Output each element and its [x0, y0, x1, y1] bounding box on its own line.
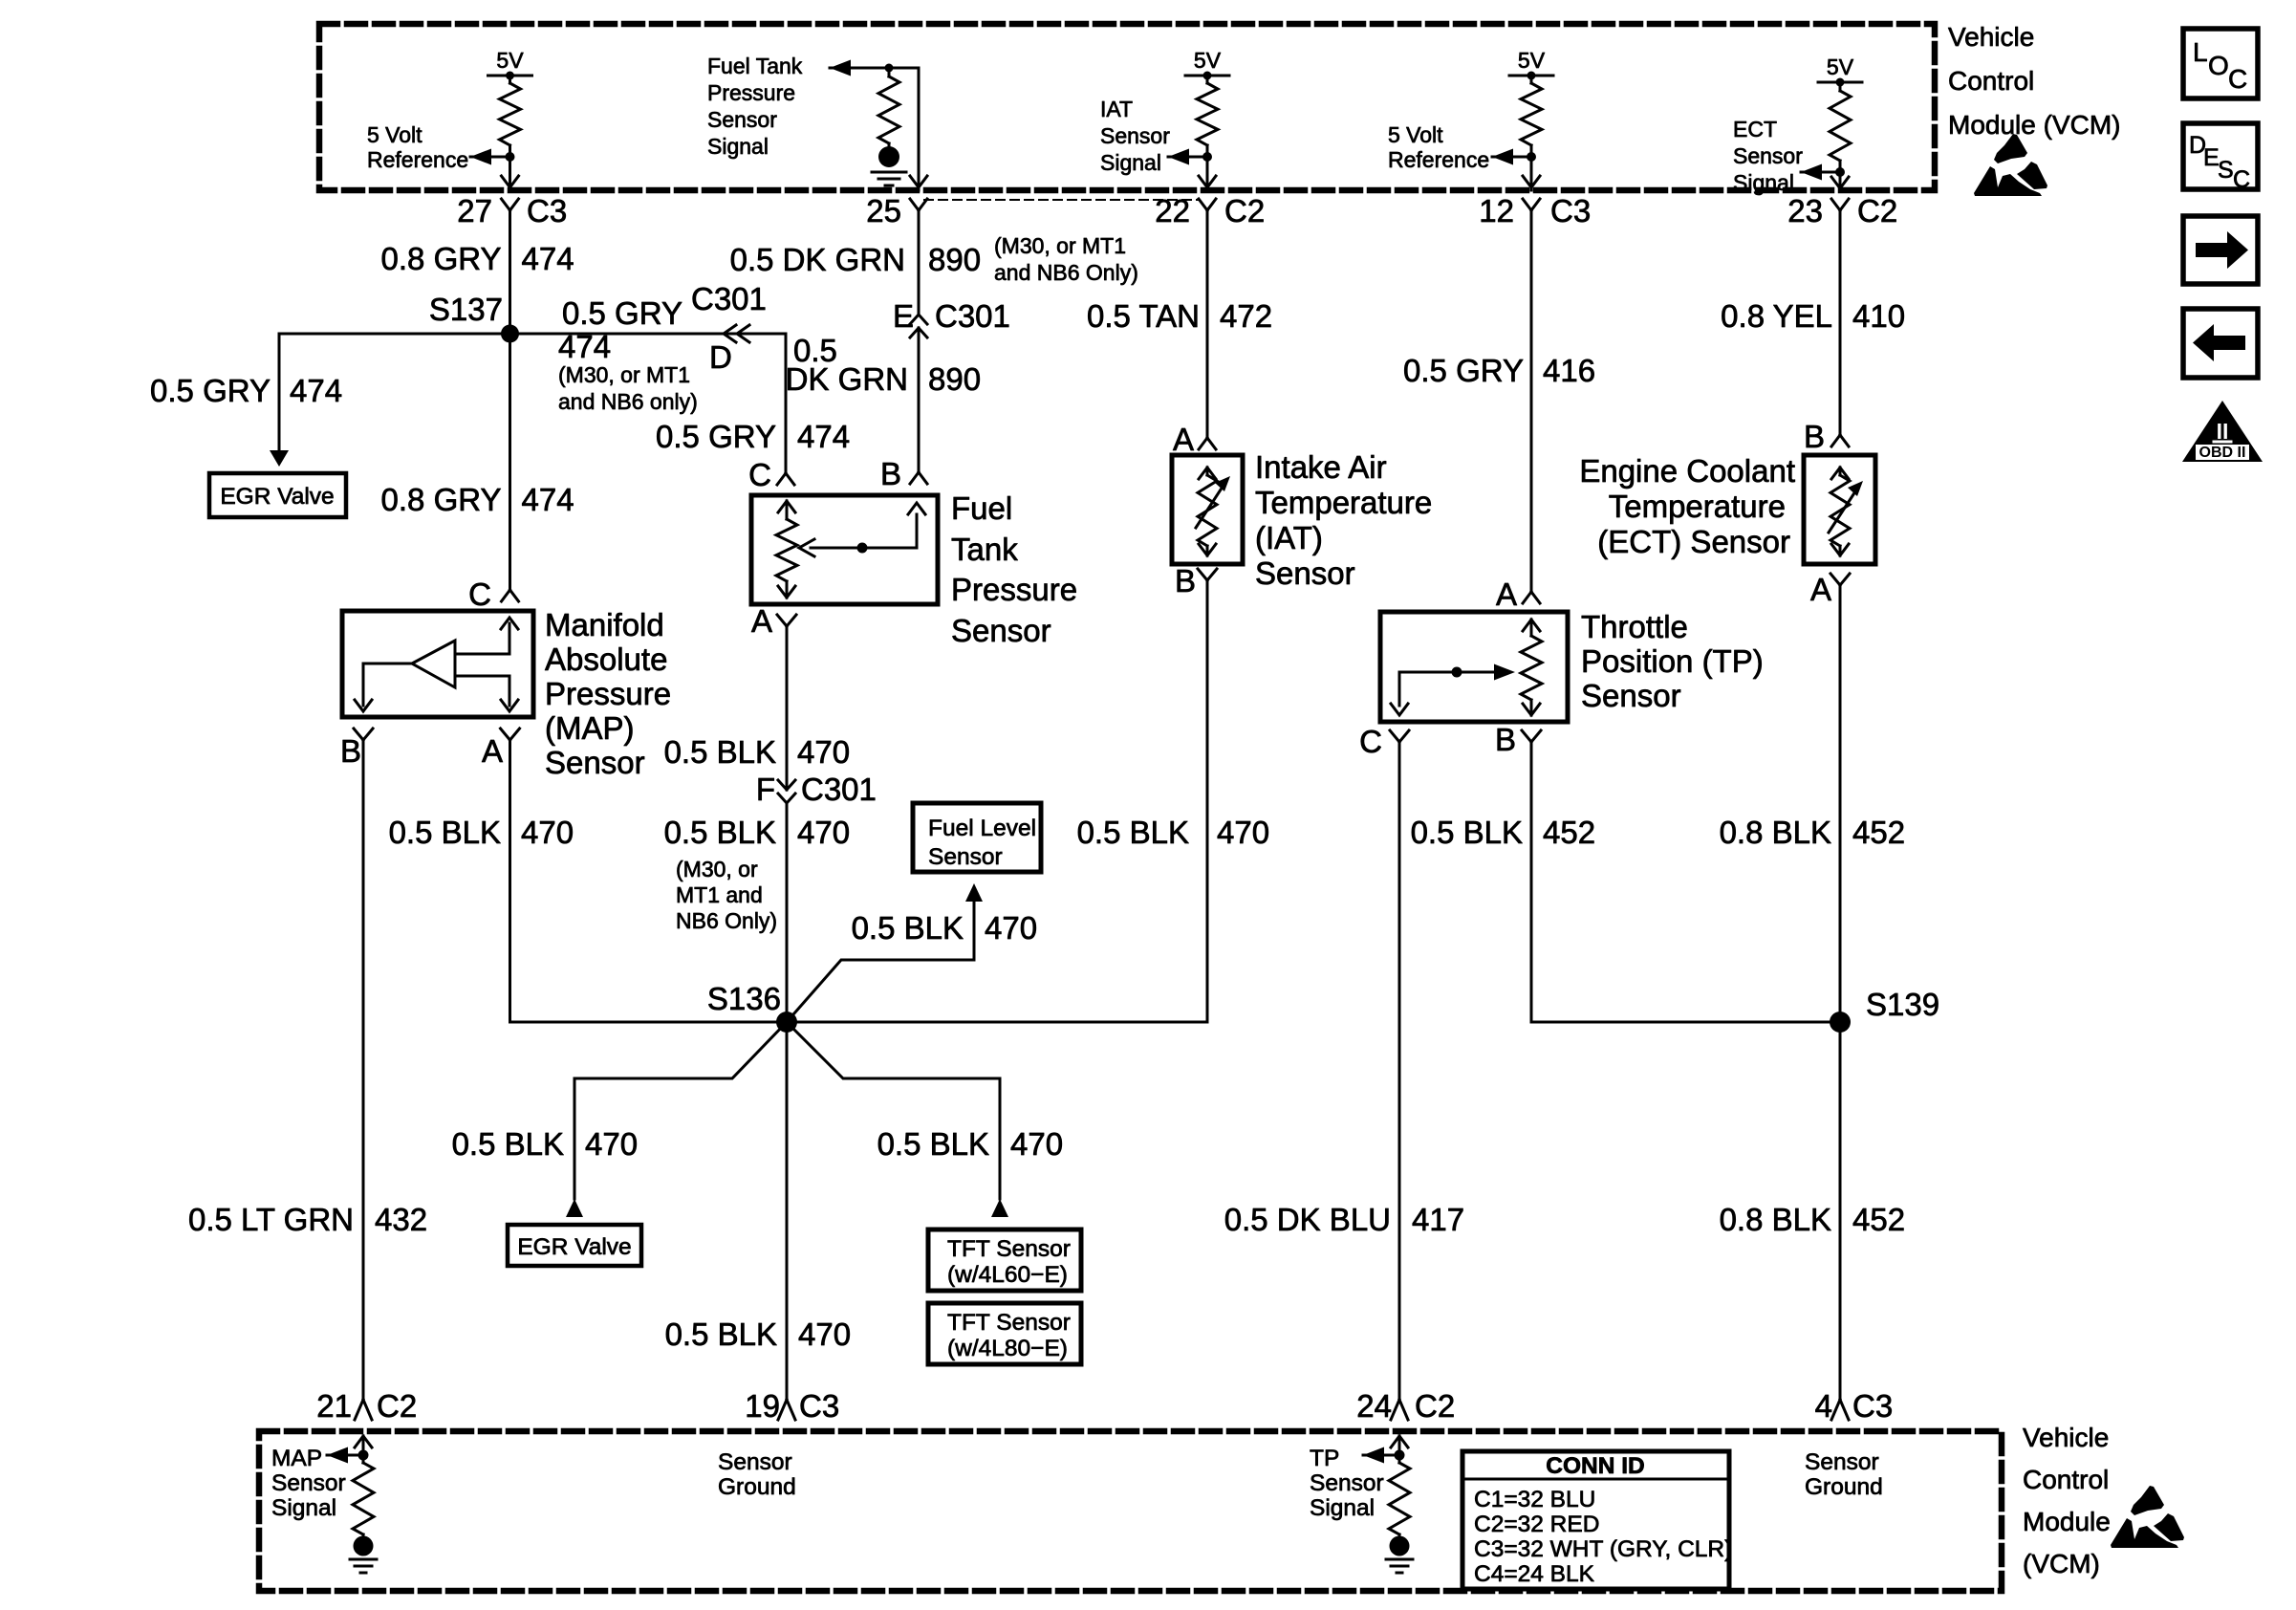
MAP Sensor Signal input (VCM internal): [327, 1436, 377, 1573]
connector C301 D (inline, double chevron left): [691, 281, 767, 375]
wire: F C301 down through S136 to pin 19: [786, 803, 789, 1400]
svg-text:(w/4L80−E): (w/4L80−E): [947, 1336, 1068, 1361]
label 0.5 BLK 470 (fuel A): [664, 734, 850, 770]
svg-text:C301: C301: [691, 281, 767, 316]
label 0.5 LT GRN 432: [188, 1202, 427, 1237]
svg-text:19: 19: [745, 1388, 780, 1424]
MAP Sensor Signal label: [271, 1446, 346, 1521]
svg-text:(M30, or MT1: (M30, or MT1: [994, 233, 1126, 258]
svg-text:0.5 BLK: 0.5 BLK: [852, 910, 964, 946]
svg-text:C2=32 RED: C2=32 RED: [1474, 1512, 1599, 1537]
label 0.5 BLK 470 (sensor ground trunk): [665, 1316, 851, 1352]
svg-text:EGR Valve: EGR Valve: [220, 484, 334, 510]
TFT Sensor box (w/4L80-E): [928, 1303, 1081, 1364]
label 0.5 BLK 470 (IAT B): [1077, 815, 1269, 850]
TP sensor pin C connector: [1359, 724, 1409, 759]
node S136: [707, 981, 797, 1033]
5V supply tap (IAT): [1185, 48, 1229, 80]
svg-text:E: E: [893, 298, 914, 334]
node: 5 Volt Reference output junction: [470, 149, 515, 165]
wire 417: TP C to pin 24: [1398, 742, 1401, 1400]
TP Sensor Signal label: [1310, 1446, 1384, 1521]
svg-text:432: 432: [375, 1202, 427, 1237]
svg-text:4: 4: [1815, 1388, 1832, 1424]
Sensor Ground label (pin 4): [1805, 1449, 1883, 1500]
svg-text:470: 470: [797, 734, 850, 770]
label 0.5 DK GRN 890: [730, 242, 981, 277]
svg-text:Sensor: Sensor: [1733, 143, 1803, 168]
fuel sensor pin B connector: [880, 456, 927, 491]
label 0.5 GRY 474 (above fuel C): [656, 419, 850, 454]
svg-text:0.5 BLK: 0.5 BLK: [1411, 815, 1523, 850]
wire 452: TP B to S139: [1531, 742, 1840, 1022]
label 0.5 DK BLU 417: [1224, 1202, 1464, 1237]
svg-text:Temperature: Temperature: [1609, 489, 1786, 524]
ECT Sensor Signal label: [1733, 117, 1803, 195]
LOC icon box: [2183, 29, 2258, 98]
svg-text:Ground: Ground: [718, 1474, 796, 1500]
label 0.5 GRY 474 (EGR branch): [150, 373, 342, 408]
svg-text:Fuel Tank: Fuel Tank: [707, 54, 803, 78]
svg-text:Control: Control: [1948, 66, 2034, 96]
svg-text:Pressure: Pressure: [707, 80, 795, 105]
resistor R (VCM internal, IAT signal): [1197, 76, 1218, 157]
TFT Sensor box (w/4L60-E): [928, 1229, 1081, 1291]
svg-text:OBD II: OBD II: [2199, 445, 2246, 461]
node S137: [429, 292, 519, 343]
label 0.5 TAN 472: [1087, 298, 1272, 334]
5 Volt Reference label (TP): [1388, 122, 1489, 172]
right arrow icon box: [2183, 216, 2258, 284]
pin 23 C2 connector: [1787, 193, 1897, 228]
svg-text:and NB6 Only): and NB6 Only): [994, 260, 1138, 285]
svg-text:470: 470: [798, 1316, 851, 1352]
5V supply tap (MAP/EGR 5 volt reference): [488, 48, 532, 80]
IAT Sensor Signal label: [1100, 97, 1170, 175]
svg-text:TFT Sensor: TFT Sensor: [947, 1310, 1071, 1336]
TP sensor pin B connector: [1495, 722, 1541, 757]
svg-text:Signal: Signal: [707, 134, 769, 159]
svg-text:0.5 BLK: 0.5 BLK: [665, 1316, 777, 1352]
pin 21 C2 connector: [316, 1388, 417, 1424]
svg-text:F: F: [756, 772, 775, 807]
svg-text:5 Volt: 5 Volt: [367, 122, 422, 147]
svg-text:0.5 GRY: 0.5 GRY: [1403, 353, 1524, 388]
svg-text:TFT Sensor: TFT Sensor: [947, 1236, 1071, 1262]
fuel sensor internal potentiometer: [776, 501, 925, 598]
svg-text:5V: 5V: [1518, 48, 1546, 73]
svg-text:Vehicle: Vehicle: [1948, 22, 2034, 52]
label 0.5 DK GRN 890 (two line): [786, 333, 981, 397]
svg-text:Sensor: Sensor: [718, 1449, 792, 1475]
svg-text:A: A: [482, 733, 503, 769]
svg-text:410: 410: [1852, 298, 1905, 334]
svg-text:0.5 TAN: 0.5 TAN: [1087, 298, 1200, 334]
MAP sensor pin A connector: [482, 729, 520, 769]
svg-text:C2: C2: [377, 1388, 417, 1424]
ECT sensor pin A connector: [1810, 572, 1850, 607]
IAT internal thermistor: [1196, 468, 1230, 555]
svg-text:Sensor: Sensor: [271, 1470, 346, 1496]
label 0.8 GRY 474 (above MAP C): [381, 482, 574, 517]
svg-text:Control: Control: [2023, 1465, 2109, 1494]
svg-text:0.5 BLK: 0.5 BLK: [664, 815, 776, 850]
svg-text:Fuel: Fuel: [951, 490, 1012, 526]
svg-text:NB6 Only): NB6 Only): [676, 908, 777, 933]
svg-text:0.5 GRY: 0.5 GRY: [150, 373, 271, 408]
svg-text:C301: C301: [935, 298, 1010, 334]
label 0.5 BLK 470 (EGR branch): [452, 1126, 638, 1162]
resistor R (VCM internal, ECT signal): [1830, 82, 1851, 172]
svg-text:0.5 BLK: 0.5 BLK: [1077, 815, 1189, 850]
svg-text:Reference: Reference: [367, 147, 468, 172]
svg-text:Signal: Signal: [1310, 1495, 1375, 1521]
pin 19 C3 connector: [745, 1388, 839, 1424]
svg-text:474: 474: [290, 373, 342, 408]
ECT signal output junction: [1801, 164, 1845, 181]
svg-text:5 Volt: 5 Volt: [1388, 122, 1443, 147]
arrow into TFT Sensor: [991, 1199, 1008, 1217]
svg-text:Ground: Ground: [1805, 1474, 1883, 1500]
wire 470: fuel A to F C301: [786, 626, 789, 790]
svg-text:Absolute: Absolute: [545, 642, 667, 677]
svg-text:452: 452: [1852, 815, 1905, 850]
svg-text:23: 23: [1787, 193, 1823, 228]
label 0.8 YEL 410: [1721, 298, 1905, 334]
label 0.8 BLK 452 (below S139): [1720, 1202, 1905, 1237]
svg-text:24: 24: [1356, 1388, 1392, 1424]
svg-text:Sensor: Sensor: [1255, 555, 1355, 591]
svg-text:(VCM): (VCM): [2023, 1549, 2100, 1578]
wire: S136 horizontal bus: [510, 1021, 1208, 1024]
TP sensor label: [1581, 609, 1764, 713]
svg-text:5V: 5V: [1827, 54, 1854, 79]
svg-text:Signal: Signal: [1100, 150, 1161, 175]
svg-text:470: 470: [585, 1126, 638, 1162]
svg-text:890: 890: [928, 242, 981, 277]
ECT sensor pin B connector: [1804, 419, 1849, 454]
svg-text:0.5 BLK: 0.5 BLK: [452, 1126, 564, 1162]
svg-text:IAT: IAT: [1100, 97, 1133, 121]
wire 890: E C301 to fuel sensor pin B: [918, 328, 921, 472]
svg-text:0.5 BLK: 0.5 BLK: [664, 734, 776, 770]
svg-text:470: 470: [797, 815, 850, 850]
Fuel Level Sensor box: [913, 803, 1041, 872]
svg-text:C2: C2: [1857, 193, 1897, 228]
wire 432: MAP B down to pin 21: [362, 740, 365, 1400]
wire 452: ECT A down through S139 to pin 4: [1839, 585, 1842, 1400]
svg-text:0.8 GRY: 0.8 GRY: [381, 241, 502, 276]
svg-text:Module (VCM): Module (VCM): [1948, 110, 2120, 140]
ECT sensor box: [1804, 455, 1875, 564]
svg-text:S: S: [2218, 157, 2234, 184]
svg-text:S137: S137: [429, 292, 503, 327]
svg-text:B: B: [1804, 419, 1825, 454]
svg-text:0.8 BLK: 0.8 BLK: [1720, 1202, 1831, 1237]
VCM module box (bottom): [259, 1431, 2002, 1591]
wire: S136 to fuel level sensor: [787, 902, 974, 1022]
MAP sensor internal amplifier: [355, 618, 518, 711]
label 0.5 GRY 416: [1403, 353, 1595, 388]
svg-text:C3: C3: [799, 1388, 839, 1424]
resistor R (VCM internal, fuel tank signal): [878, 64, 899, 147]
CONN ID table: [1462, 1451, 1732, 1589]
label 0.5 GRY 474 (M30, or MT1 and NB6 only): [558, 295, 698, 414]
VCM label (top): [1948, 22, 2120, 140]
ground (VCM internal, fuel tank signal): [872, 146, 906, 185]
svg-text:EGR Valve: EGR Valve: [517, 1234, 631, 1260]
svg-text:0.5 DK BLU: 0.5 DK BLU: [1224, 1202, 1391, 1237]
svg-text:C4=24 BLK: C4=24 BLK: [1474, 1561, 1595, 1587]
label 0.5 BLK 470 (fuel level branch): [852, 910, 1037, 946]
svg-text:ECT: ECT: [1733, 117, 1777, 141]
pin 22 C2 connector: [1155, 193, 1265, 228]
svg-text:25: 25: [866, 193, 901, 228]
wire 410: pin 23 to ECT pin B: [1839, 210, 1842, 435]
svg-text:C: C: [2228, 64, 2247, 94]
arrow into EGR Valve (lower): [566, 1199, 583, 1217]
label 0.5 BLK 470 (TFT branch): [877, 1126, 1063, 1162]
TP sensor pin A connector: [1496, 577, 1540, 612]
ESD symbol (bottom): [2111, 1486, 2184, 1548]
pin 27 C3 connector: [457, 193, 567, 228]
wire: S137 to C301 D to fuel sensor pin C: [510, 334, 787, 473]
pin 24 C2 connector: [1356, 1388, 1455, 1424]
EGR Valve box (lower): [508, 1225, 641, 1266]
wire to pin 23 with down arrow: [1831, 172, 1849, 190]
svg-text:Tank: Tank: [951, 532, 1018, 567]
svg-text:(MAP): (MAP): [545, 710, 635, 746]
DESC icon box: [2183, 123, 2258, 193]
svg-text:474: 474: [522, 482, 574, 517]
Fuel Tank Pressure Sensor Signal label: [707, 54, 803, 159]
VCM module box (top): [319, 24, 1935, 190]
svg-text:0.5 GRY: 0.5 GRY: [656, 419, 776, 454]
svg-text:MAP: MAP: [271, 1446, 322, 1471]
svg-text:470: 470: [985, 910, 1037, 946]
TP 5 volt reference output junction: [1492, 149, 1536, 165]
svg-text:Sensor: Sensor: [1100, 123, 1170, 148]
svg-text:470: 470: [1217, 815, 1269, 850]
svg-text:(M30, or MT1: (M30, or MT1: [558, 362, 690, 387]
svg-text:B: B: [340, 733, 361, 769]
MAP sensor box: [342, 611, 533, 717]
wire to pin 22 with down arrow: [1199, 157, 1216, 190]
label 0.5 BLK 470 (M30, or MT1 and NB6 Only): [664, 815, 850, 933]
wire 470: IAT B down to S136 bus: [1206, 580, 1209, 1022]
alternate harness dashed note line: [924, 199, 1198, 201]
svg-text:Sensor: Sensor: [928, 844, 1003, 870]
svg-text:Sensor: Sensor: [545, 745, 645, 780]
svg-text:0.5 BLK: 0.5 BLK: [389, 815, 501, 850]
TP internal potentiometer: [1391, 620, 1542, 715]
ECT sensor label: [1579, 453, 1795, 559]
svg-text:C: C: [468, 577, 491, 612]
svg-text:470: 470: [1010, 1126, 1063, 1162]
left arrow icon box: [2183, 309, 2258, 378]
svg-text:0.5 BLK: 0.5 BLK: [877, 1126, 989, 1162]
svg-text:O: O: [2208, 51, 2229, 80]
svg-text:B: B: [1495, 722, 1516, 757]
svg-text:890: 890: [928, 361, 981, 397]
wire 416: pin 12 to TP pin A: [1530, 210, 1533, 592]
svg-text:Pressure: Pressure: [545, 676, 671, 711]
svg-text:CONN ID: CONN ID: [1546, 1453, 1644, 1479]
svg-text:(w/4L60−E): (w/4L60−E): [947, 1262, 1068, 1288]
svg-text:Fuel Level: Fuel Level: [928, 816, 1036, 841]
wire: S136 to EGR valve (lower): [574, 1022, 787, 1199]
MAP sensor pin C connector: [468, 577, 518, 612]
svg-text:C3: C3: [1852, 1388, 1893, 1424]
Sensor Ground label (pin 19): [718, 1449, 796, 1500]
svg-text:Throttle: Throttle: [1581, 609, 1688, 644]
svg-text:12: 12: [1479, 193, 1514, 228]
svg-text:0.5 GRY: 0.5 GRY: [562, 295, 682, 331]
svg-text:C: C: [2233, 166, 2250, 193]
svg-text:474: 474: [797, 419, 850, 454]
arrow into EGR Valve: [270, 450, 289, 467]
svg-text:21: 21: [316, 1388, 352, 1424]
svg-text:Manifold: Manifold: [545, 607, 664, 642]
svg-text:(IAT): (IAT): [1255, 520, 1323, 555]
svg-text:C3: C3: [1550, 193, 1591, 228]
svg-text:C: C: [1359, 724, 1382, 759]
VCM label (bottom): [2023, 1423, 2111, 1578]
EGR Valve box (upper): [209, 473, 346, 517]
wire: MAP A down to S136 horizontal: [509, 740, 511, 1022]
wire 474: S137 down to MAP pin C: [509, 334, 511, 590]
5 Volt Reference label: [367, 122, 468, 172]
svg-text:C301: C301: [801, 772, 877, 807]
IAT sensor pin B connector: [1175, 563, 1217, 598]
svg-text:Sensor: Sensor: [951, 613, 1051, 648]
connector E C301 (inline, double chevron up): [893, 298, 1010, 337]
MAP sensor pin B connector: [340, 729, 373, 769]
TP Sensor Signal input (VCM internal): [1363, 1436, 1413, 1573]
svg-text:Sensor: Sensor: [1805, 1449, 1879, 1475]
5V supply tap (TP 5 volt reference): [1509, 48, 1553, 80]
fuel sensor pin C connector: [748, 457, 794, 492]
svg-text:A: A: [1173, 422, 1194, 457]
svg-text:(M30, or: (M30, or: [676, 857, 758, 881]
svg-text:C1=32 BLU: C1=32 BLU: [1474, 1487, 1595, 1512]
svg-text:470: 470: [521, 815, 574, 850]
svg-text:474: 474: [558, 329, 611, 364]
svg-text:DK GRN: DK GRN: [786, 361, 908, 397]
fuel tank signal arrow and wire: [830, 60, 927, 191]
svg-text:B: B: [880, 456, 901, 491]
Throttle Position sensor box: [1380, 612, 1568, 722]
wire: pin 25 to connector E C301: [918, 210, 921, 315]
svg-text:A: A: [1810, 572, 1831, 607]
svg-text:C3: C3: [527, 193, 567, 228]
svg-text:Module: Module: [2023, 1507, 2111, 1536]
svg-text:416: 416: [1543, 353, 1595, 388]
IAT sensor box: [1172, 455, 1243, 564]
wire: S136 to TFT sensor: [787, 1022, 1000, 1199]
arrow into Fuel Level Sensor: [965, 883, 983, 902]
svg-text:Sensor: Sensor: [1581, 678, 1681, 713]
IAT signal output junction: [1168, 149, 1212, 165]
svg-text:MT1 and: MT1 and: [676, 882, 763, 907]
svg-text:474: 474: [522, 241, 574, 276]
connector F C301 (inline, double chevron down): [756, 772, 877, 807]
svg-text:452: 452: [1852, 1202, 1905, 1237]
resistor R (VCM internal, TP 5 volt reference): [1521, 76, 1542, 157]
svg-text:0.5 DK GRN: 0.5 DK GRN: [730, 242, 905, 277]
svg-text:5V: 5V: [496, 48, 524, 73]
svg-text:C: C: [748, 457, 771, 492]
svg-text:Vehicle: Vehicle: [2023, 1423, 2109, 1452]
svg-text:417: 417: [1412, 1202, 1464, 1237]
svg-text:C2: C2: [1415, 1388, 1455, 1424]
Fuel Tank Pressure Sensor label: [951, 490, 1077, 648]
wire to pin 12 with down arrow: [1523, 157, 1540, 190]
svg-text:22: 22: [1155, 193, 1190, 228]
OBD II triangle icon: [2182, 401, 2263, 462]
label 0.8 BLK 452 (above S139): [1720, 815, 1905, 850]
svg-text:0.5 LT GRN: 0.5 LT GRN: [188, 1202, 354, 1237]
svg-text:452: 452: [1543, 815, 1595, 850]
svg-text:Pressure: Pressure: [951, 572, 1077, 607]
svg-text:Engine Coolant: Engine Coolant: [1579, 453, 1795, 489]
svg-text:0.8 BLK: 0.8 BLK: [1720, 815, 1831, 850]
svg-text:and NB6 only): and NB6 only): [558, 389, 698, 414]
pin 4 C3 connector: [1815, 1388, 1894, 1424]
wire: resistor to pin 27 with down arrow: [502, 157, 519, 190]
wire 472: pin 22 to IAT pin A: [1206, 210, 1209, 438]
(M30, or MT1 and NB6 Only) note: [994, 233, 1138, 285]
svg-text:Signal: Signal: [271, 1495, 336, 1521]
MAP sensor label: [545, 607, 671, 780]
svg-text:27: 27: [457, 193, 492, 228]
svg-text:S136: S136: [707, 981, 781, 1016]
svg-text:TP: TP: [1310, 1446, 1339, 1471]
IAT sensor pin A connector: [1173, 422, 1216, 457]
svg-text:Reference: Reference: [1388, 147, 1489, 172]
Fuel Tank Pressure Sensor box: [751, 495, 938, 604]
svg-text:S139: S139: [1866, 987, 1939, 1022]
pin 12 C3 connector: [1479, 193, 1591, 228]
ECT internal thermistor: [1829, 468, 1863, 555]
svg-text:(ECT) Sensor: (ECT) Sensor: [1597, 524, 1790, 559]
fuel sensor pin A connector: [751, 603, 796, 639]
label 0.8 GRY 474: [381, 241, 574, 276]
resistor R (VCM internal, 5 volt reference): [500, 76, 521, 157]
svg-text:5V: 5V: [1194, 48, 1222, 73]
label 0.5 BLK 470 (MAP A): [389, 815, 574, 850]
node S139: [1830, 987, 1939, 1033]
svg-text:Signal: Signal: [1733, 170, 1794, 195]
svg-text:0.8 YEL: 0.8 YEL: [1721, 298, 1832, 334]
wire: S137 left branch to EGR valve: [279, 334, 510, 449]
svg-text:Position (TP): Position (TP): [1581, 643, 1764, 679]
svg-text:II: II: [2217, 419, 2229, 444]
svg-text:L: L: [2193, 37, 2208, 67]
ESD symbol (top): [1974, 134, 2047, 196]
svg-text:Temperature: Temperature: [1255, 485, 1432, 520]
svg-text:Intake Air: Intake Air: [1255, 449, 1387, 485]
5V supply tap (ECT): [1818, 54, 1862, 87]
svg-text:B: B: [1175, 563, 1196, 598]
svg-text:Sensor: Sensor: [707, 107, 777, 132]
svg-text:0.8 GRY: 0.8 GRY: [381, 482, 502, 517]
svg-text:472: 472: [1220, 298, 1272, 334]
svg-text:A: A: [1496, 577, 1517, 612]
svg-text:D: D: [709, 339, 732, 375]
wire 474: pin 27 to S137: [509, 210, 511, 334]
svg-text:C2: C2: [1224, 193, 1265, 228]
